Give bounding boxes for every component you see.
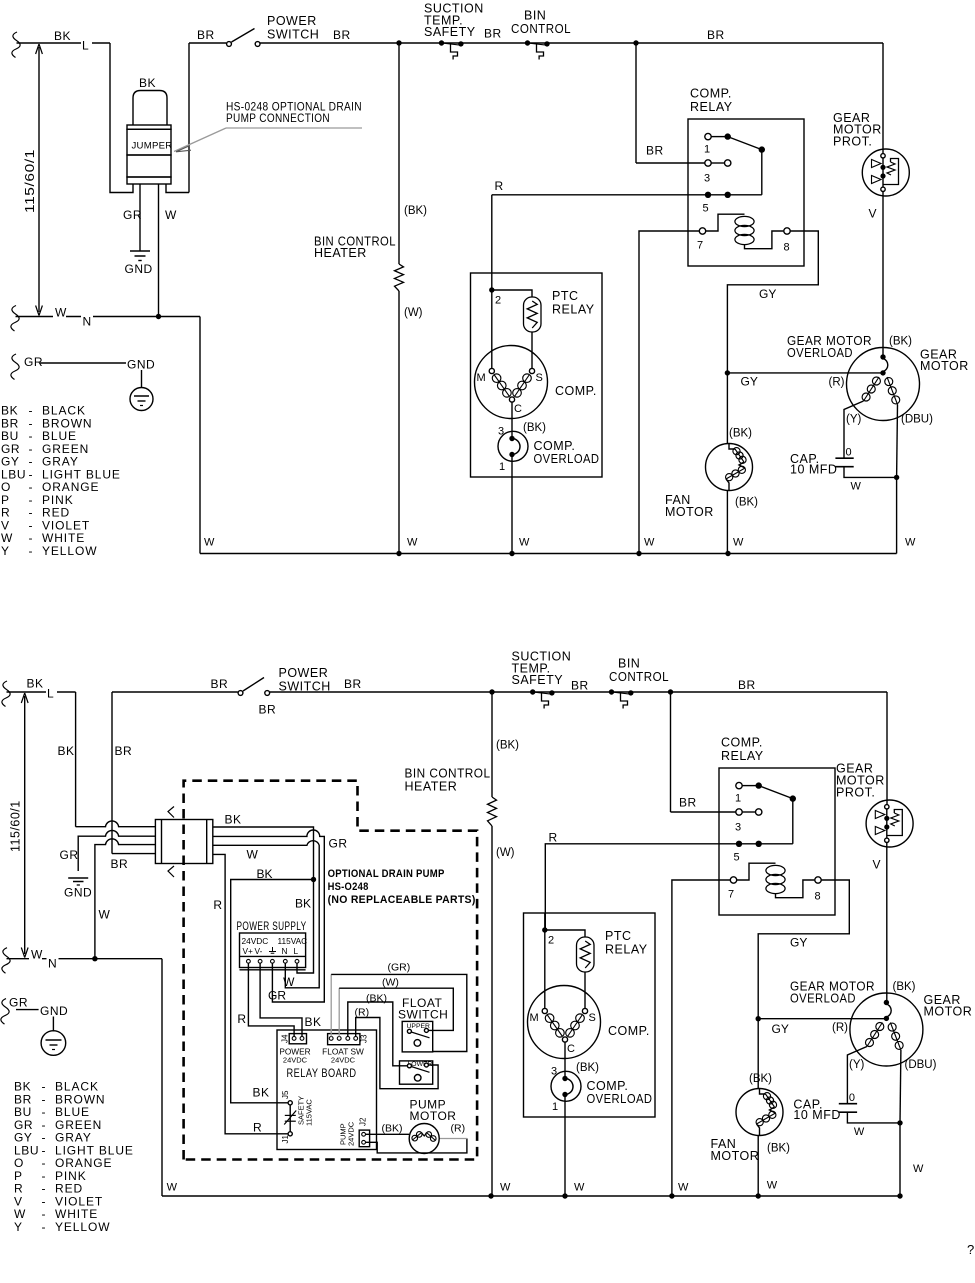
svg-text:GR: GR [24,355,43,369]
svg-text:W: W [31,948,43,962]
svg-text:24VDC: 24VDC [283,1056,308,1065]
svg-text:J2: J2 [359,1117,368,1126]
svg-text:W: W [733,537,744,549]
svg-text:BR: BR [111,857,129,871]
svg-text:GY: GY [772,1022,789,1036]
svg-text:SAFETY: SAFETY [424,25,476,39]
svg-text:BR: BR [115,744,133,758]
svg-text:BK: BK [295,897,311,911]
svg-text:GND: GND [64,886,92,900]
svg-text:PROT.: PROT. [836,786,875,800]
svg-text:MOTOR: MOTOR [711,1149,760,1163]
svg-text:(BK): (BK) [749,1073,772,1085]
svg-text:BR: BR [259,703,277,717]
svg-text:L: L [82,39,89,53]
svg-text:J5: J5 [281,1090,290,1099]
svg-text:HEATER: HEATER [405,780,458,794]
svg-text:24VDC: 24VDC [242,936,269,946]
svg-text:RELAY: RELAY [721,749,764,763]
svg-text:MOTOR: MOTOR [924,1005,973,1019]
svg-text:BK: BK [58,744,75,758]
svg-text:GR: GR [9,996,28,1010]
svg-text:V: V [869,207,877,221]
svg-text:W: W [99,908,111,922]
svg-text:GY: GY [741,375,758,389]
svg-text:(BK): (BK) [404,205,427,217]
svg-text:BR: BR [344,677,362,691]
svg-text:OPTIONAL DRAIN PUMP: OPTIONAL DRAIN PUMP [328,868,445,880]
svg-text:OVERLOAD: OVERLOAD [790,992,856,1006]
svg-text:RELAY: RELAY [690,100,733,114]
svg-text:(Y): (Y) [846,414,862,426]
svg-text:R: R [253,1121,262,1135]
svg-text:V-: V- [255,946,263,956]
svg-text:L: L [294,946,299,956]
svg-text:W: W [55,306,67,320]
svg-text:J3: J3 [360,1034,369,1043]
svg-text:W: W [913,1163,924,1175]
svg-text:GR: GR [60,848,79,862]
svg-text:(BK): (BK) [889,336,912,348]
svg-text:(W): (W) [382,977,399,989]
svg-text:POWER: POWER [279,666,329,680]
svg-text:115/60/1: 115/60/1 [9,800,23,852]
svg-text:COMP.: COMP. [721,736,763,750]
svg-text:GND: GND [40,1004,68,1018]
svg-text:(Y): (Y) [849,1059,865,1071]
svg-text:CONTROL: CONTROL [511,22,571,36]
svg-text:J4: J4 [281,1034,290,1043]
svg-text:(NO REPLACEABLE PARTS): (NO REPLACEABLE PARTS) [328,894,476,906]
svg-text:BIN CONTROL: BIN CONTROL [405,767,491,781]
svg-text:(R): (R) [829,377,845,389]
svg-text:W: W [678,1182,689,1194]
svg-text:W: W [204,537,215,549]
svg-text:W: W [247,848,259,862]
svg-text:BR: BR [707,28,725,42]
svg-text:BR: BR [484,27,502,41]
svg-text:PROT.: PROT. [833,135,872,149]
svg-text:W: W [905,537,916,549]
svg-text:(R): (R) [451,1123,466,1135]
svg-text:(R): (R) [832,1022,848,1034]
svg-text:(BK): (BK) [735,497,758,509]
svg-text:HEATER: HEATER [314,246,367,260]
svg-text:24VDC: 24VDC [347,1121,356,1146]
svg-text:115/60/1: 115/60/1 [23,149,37,213]
svg-text:GND: GND [125,262,153,276]
svg-text:(W): (W) [496,847,515,859]
svg-text:SWITCH: SWITCH [279,680,331,694]
svg-text:R: R [495,179,504,193]
svg-text:W: W [519,537,530,549]
svg-text:BR: BR [646,144,664,158]
svg-text:BR: BR [333,28,351,42]
svg-text:(BK): (BK) [767,1143,790,1155]
svg-text:115VAC: 115VAC [305,1099,314,1126]
svg-text:GR: GR [329,837,348,851]
svg-text:BR: BR [197,28,215,42]
svg-text:115VAC: 115VAC [278,936,308,946]
svg-text:RELAY BOARD: RELAY BOARD [287,1068,357,1080]
svg-text:POWER: POWER [267,14,317,28]
svg-text:GND: GND [127,358,155,372]
svg-text:?: ? [967,1242,974,1257]
svg-text:N: N [48,957,57,971]
svg-text:L: L [47,687,54,701]
svg-text:N: N [83,315,92,329]
svg-text:V: V [873,858,881,872]
svg-text:R: R [237,1012,246,1026]
svg-text:MOTOR: MOTOR [665,505,714,519]
svg-text:(DBU): (DBU) [901,414,933,426]
svg-text:W: W [165,208,177,222]
svg-text:R: R [549,831,558,845]
svg-text:(BK): (BK) [366,993,387,1005]
svg-text:V+: V+ [243,946,254,956]
svg-text:OVERLOAD: OVERLOAD [787,346,853,360]
svg-text:(BK): (BK) [382,1123,403,1135]
svg-text:(BK): (BK) [893,981,916,993]
svg-text:SAFETY: SAFETY [512,673,564,687]
svg-text:(BK): (BK) [496,740,519,752]
svg-text:HS-O248: HS-O248 [328,881,369,893]
svg-text:MOTOR: MOTOR [920,359,969,373]
svg-text:R: R [213,898,222,912]
svg-text:JUMPER: JUMPER [132,141,173,152]
svg-text:(BK): (BK) [729,428,752,440]
svg-text:POWER SUPPLY: POWER SUPPLY [237,921,307,933]
svg-text:J1: J1 [281,1135,290,1144]
svg-text:W: W [283,975,295,989]
svg-text:BR: BR [738,678,756,692]
svg-text:(GR): (GR) [388,962,411,974]
svg-text:W: W [407,537,418,549]
svg-text:BIN: BIN [618,657,640,671]
svg-text:(R): (R) [355,1007,370,1019]
svg-text:BK: BK [54,29,71,43]
svg-text:SWITCH: SWITCH [398,1008,448,1022]
svg-text:N: N [282,946,288,956]
svg-text:GR: GR [268,989,286,1003]
svg-text:BIN: BIN [524,9,546,23]
svg-text:GY: GY [790,936,807,950]
svg-text:BK: BK [305,1015,322,1029]
svg-text:SWITCH: SWITCH [267,28,319,42]
svg-text:W: W [574,1182,585,1194]
svg-text:BK: BK [253,1086,270,1100]
svg-text:W: W [500,1182,511,1194]
svg-text:(W): (W) [404,307,423,319]
svg-text:CONTROL: CONTROL [609,670,669,684]
svg-text:(DBU): (DBU) [905,1059,937,1071]
svg-text:COMP.: COMP. [690,87,732,101]
svg-text:W: W [767,1180,778,1192]
svg-text:BR: BR [571,679,589,693]
svg-text:BK: BK [257,867,273,881]
svg-text:24VDC: 24VDC [331,1056,356,1065]
svg-text:BR: BR [211,677,229,691]
svg-text:W: W [644,537,655,549]
svg-text:BK: BK [27,677,44,691]
svg-text:GR: GR [123,208,142,222]
svg-text:PUMP CONNECTION: PUMP CONNECTION [226,111,330,125]
svg-text:MOTOR: MOTOR [410,1109,457,1123]
svg-text:BK: BK [225,813,242,827]
svg-text:GY: GY [759,287,776,301]
svg-text:BK: BK [139,76,156,90]
svg-text:W: W [167,1182,178,1194]
svg-text:BR: BR [679,796,697,810]
